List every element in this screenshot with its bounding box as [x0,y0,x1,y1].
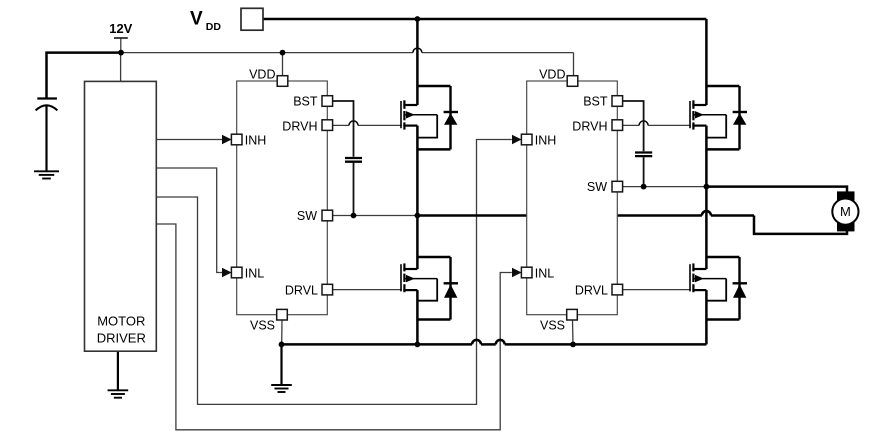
transistor Q1 high-side with body diode D1 [400,101,402,128]
motor driver box [85,81,157,351]
wire INL1 route [156,168,222,273]
node SW1 bootstrap junction [351,213,357,219]
wire VSS1 to ground rail [281,320,283,344]
svg-text:DRVH: DRVH [572,120,607,134]
wire bridge1 mid vertical (SW node) [416,126,419,269]
wire INL2 route [156,224,512,430]
svg-text:VSS: VSS [250,319,275,333]
wire DRVL2 to gate [617,289,691,291]
node VDD rail to bridge1 [415,16,421,22]
svg-text:INH: INH [245,133,267,147]
transistor Q3 high-side with body diode D3 [689,101,691,128]
pin BST U1 [322,96,333,107]
arrow into INH U2 [512,135,522,145]
wire BST1 to capacitor [327,101,353,157]
motor M terminals [837,191,855,200]
arrow into INL U1 [222,268,232,278]
wire bridge1 drain vertical [416,19,419,105]
pin INH U2 [521,134,532,145]
wire bridge2 low source vertical [705,290,708,344]
svg-text:V: V [190,9,203,30]
svg-text:VDD: VDD [249,68,275,82]
ground input capacitor [34,170,59,172]
pin VSS U2 [567,309,578,320]
wire 12V rail (thin) with hop over bridge1 drain [121,52,413,54]
capacitor C3 input filter [37,97,57,99]
wire VDD2 drop to pin [573,53,575,76]
wire 12V input to filter capacitor [47,53,122,98]
node VSS2 ground [570,342,576,348]
arrow into INH U1 [222,135,232,145]
motor M body [832,199,858,225]
svg-text:INH: INH [535,133,557,147]
node SW2 bootstrap junction [641,184,647,190]
svg-text:DRIVER: DRIVER [97,330,146,345]
ground VSS rail [280,344,282,385]
wire VDD thick rail [263,18,706,21]
12V terminal tick [114,37,128,39]
svg-text:SW: SW [587,180,607,194]
wire bridge1 low source vertical [416,290,419,344]
svg-text:DD: DD [206,21,222,33]
wire bridge2 drain vertical [705,19,708,105]
pin VDD U1 [277,76,288,87]
VDD terminal box [241,8,263,30]
capacitor C1 bootstrap [345,157,362,159]
wire SW2 output to motor [706,187,847,196]
node SW2 [704,184,710,190]
svg-text:MOTOR: MOTOR [97,314,145,329]
svg-text:DRVL: DRVL [285,284,318,298]
svg-text:INL: INL [245,266,264,280]
svg-text:M: M [840,204,851,219]
wire VDD1 drop to pin [282,53,284,76]
wire 12V terminal stub [120,38,122,52]
wire bridge2 mid vertical (SW node) [705,126,708,269]
pin INL U2 [521,267,532,278]
svg-text:SW: SW [297,209,317,223]
node VDD1 junction [280,50,286,56]
pin VSS U1 [277,309,288,320]
transistor Q4 low-side with body diode D4 [689,264,691,291]
arrow into INL U2 [512,268,522,278]
gate driver U2 box [527,81,618,315]
node bridge1 source ground [415,342,421,348]
node VSS1 ground [279,342,285,348]
wire INH2 route [156,140,512,405]
svg-text:DRVL: DRVL [575,284,608,298]
wire SW1 pin to node [327,215,417,217]
svg-text:VSS: VSS [540,319,565,333]
wire INH1 from motor driver [156,139,222,141]
svg-text:INL: INL [535,266,555,280]
pin SW U2 [612,181,623,192]
wire BST2 to capacitor [617,101,643,151]
pin DRVH U2 [612,120,623,131]
ground motor driver [117,351,119,390]
pin VDD U2 [567,76,578,87]
transistor Q2 low-side with body diode D2 [400,264,402,291]
wire 12V drop to motor driver box [120,53,122,82]
wire ground rail with hops [282,343,473,346]
pin DRVL U1 [322,284,333,295]
node 12V junction [118,50,124,56]
pin SW U1 [322,210,333,221]
wire DRVL1 to gate [327,289,402,291]
svg-text:VDD: VDD [539,68,565,82]
svg-text:BST: BST [293,95,318,109]
svg-text:DRVH: DRVH [282,120,317,134]
node SW1 [415,213,421,219]
capacitor C2 bootstrap [635,151,652,153]
svg-text:BST: BST [583,95,608,109]
pin INL U1 [231,267,242,278]
pin BST U2 [612,96,623,107]
wire DRVH1 to gate with hop over bootstrap [327,124,349,126]
wire VSS2 to ground rail [572,320,575,344]
wire DRVH2 to gate with hop over bootstrap [617,124,639,126]
wire SW2 pin to node [617,186,706,188]
gate driver U1 box [237,81,328,315]
svg-text:12V: 12V [109,21,132,36]
pin DRVH U1 [322,120,333,131]
wire SW1 output to motor (hops bridge2) [417,214,702,217]
pin INH U1 [231,134,242,145]
pin DRVL U2 [612,284,623,295]
